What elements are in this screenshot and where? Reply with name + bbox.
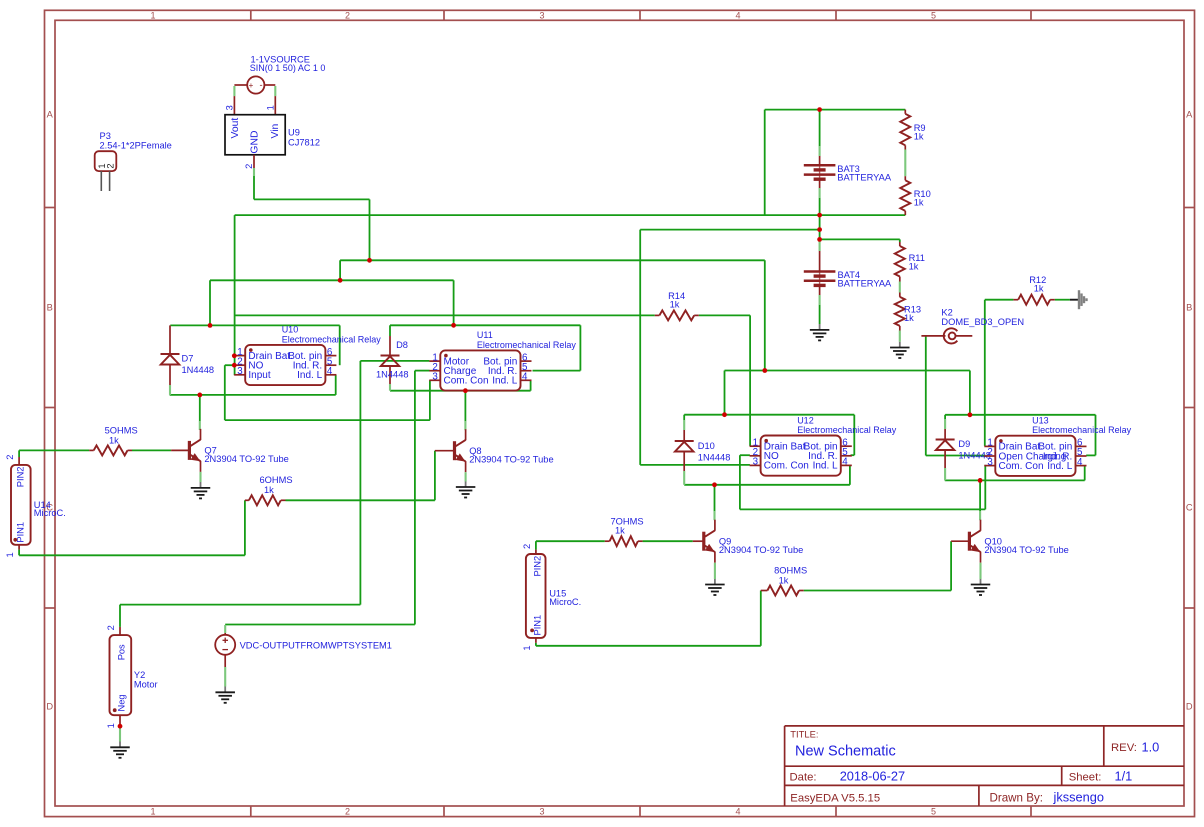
svg-text:3: 3 bbox=[987, 457, 993, 468]
resistor R11 bbox=[899, 239, 901, 242]
svg-text:GND: GND bbox=[249, 131, 260, 154]
transistor Q8 2N3904 bbox=[435, 450, 455, 452]
junction node y280 bbox=[338, 278, 343, 283]
svg-text:1N4448: 1N4448 bbox=[376, 370, 409, 380]
resistor 8OHMS bbox=[761, 590, 768, 592]
svg-text:1k: 1k bbox=[615, 526, 625, 536]
relay U13 Electromechanical Relay bbox=[995, 436, 1075, 476]
svg-text:U12: U12 bbox=[797, 415, 814, 425]
svg-text:4: 4 bbox=[735, 11, 740, 21]
wire VDC riser to U11 pin2 bbox=[415, 370, 430, 372]
svg-text:TITLE:: TITLE: bbox=[790, 729, 818, 740]
svg-text:1k: 1k bbox=[914, 132, 924, 142]
svg-text:D: D bbox=[46, 702, 53, 712]
svg-text:D7: D7 bbox=[182, 354, 194, 364]
junction BAT4 node B bbox=[817, 237, 822, 242]
svg-text:B: B bbox=[47, 303, 53, 313]
svg-text:Electromechanical Relay: Electromechanical Relay bbox=[282, 334, 382, 344]
svg-text:3: 3 bbox=[539, 807, 544, 817]
junction BAT4 node A bbox=[817, 227, 822, 232]
svg-text:2N3904 TO-92 Tube: 2N3904 TO-92 Tube bbox=[469, 455, 553, 465]
junction Q7 collector bbox=[197, 393, 202, 398]
resistor 6OHMS bbox=[245, 499, 249, 501]
ground under BAT4 bbox=[819, 324, 821, 330]
junction Y2 pin1 bbox=[118, 724, 123, 729]
svg-text:1: 1 bbox=[106, 723, 116, 728]
svg-text:4: 4 bbox=[327, 366, 333, 377]
diode D10 1N4448 bbox=[683, 415, 685, 420]
svg-text:K2: K2 bbox=[941, 307, 952, 317]
wire U12 top rail bbox=[684, 414, 854, 416]
wire U12 pin2 to U13 pin3 bbox=[740, 454, 750, 456]
wire 8OHMS to Q10 base bbox=[804, 590, 951, 592]
svg-text:1N4448: 1N4448 bbox=[182, 365, 215, 375]
svg-text:U13: U13 bbox=[1032, 416, 1049, 426]
junction BAT3 minus bbox=[817, 213, 822, 218]
svg-text:B: B bbox=[1186, 303, 1192, 313]
svg-text:Sheet:: Sheet: bbox=[1069, 771, 1102, 783]
relay U12 Electromechanical Relay bbox=[761, 436, 841, 476]
wire U13 top rail bbox=[945, 414, 1095, 416]
ground under Q9 bbox=[714, 563, 716, 579]
resistor R10 bbox=[900, 180, 910, 211]
wire U9 GND to node bbox=[253, 176, 255, 199]
svg-text:4: 4 bbox=[735, 807, 740, 817]
svg-text:1k: 1k bbox=[909, 262, 919, 272]
svg-text:MicroC.: MicroC. bbox=[34, 508, 66, 518]
svg-text:CJ7812: CJ7812 bbox=[288, 138, 320, 148]
wire battery node to R11 bbox=[820, 238, 900, 240]
svg-text:1: 1 bbox=[522, 645, 532, 650]
svg-text:Ind. L: Ind. L bbox=[297, 370, 322, 381]
svg-text:Date:: Date: bbox=[790, 771, 817, 783]
transistor Q10 2N3904 bbox=[951, 540, 969, 542]
svg-text:D9: D9 bbox=[958, 439, 970, 449]
buzzer K2 DOME_BD3_OPEN bbox=[921, 335, 945, 337]
svg-text:5: 5 bbox=[931, 11, 936, 21]
wire U10 pin2 pin3 to U11 pin3 bbox=[225, 364, 234, 366]
svg-text:4: 4 bbox=[522, 372, 528, 383]
junction Q9 collector bbox=[712, 482, 717, 487]
svg-text:Com. Con: Com. Con bbox=[444, 376, 489, 387]
svg-text:2N3904 TO-92 Tube: 2N3904 TO-92 Tube bbox=[984, 545, 1068, 555]
svg-text:Ind. L: Ind. L bbox=[492, 376, 517, 387]
junction U10 rail riser bbox=[208, 323, 213, 328]
regulator U9 CJ7812 bbox=[225, 115, 285, 155]
junction U10 pin1 bbox=[232, 353, 237, 358]
wire battery top rail bbox=[765, 109, 906, 111]
svg-text:D8: D8 bbox=[396, 340, 408, 350]
junction U11 rail riser bbox=[451, 323, 456, 328]
svg-text:2: 2 bbox=[5, 455, 15, 460]
svg-text:1: 1 bbox=[150, 807, 155, 817]
svg-text:D10: D10 bbox=[698, 441, 715, 451]
svg-text:Pos: Pos bbox=[116, 644, 126, 660]
relay U10 Electromechanical Relay bbox=[245, 345, 325, 385]
svg-text:Electromechanical Relay: Electromechanical Relay bbox=[797, 425, 897, 435]
svg-text:2: 2 bbox=[345, 807, 350, 817]
svg-text:Ind. L: Ind. L bbox=[1047, 461, 1072, 472]
svg-text:Drawn By:: Drawn By: bbox=[990, 791, 1043, 804]
ground port right of R12 bbox=[1070, 299, 1079, 301]
svg-text:BATTERYAA: BATTERYAA bbox=[837, 173, 892, 183]
ground under Y2 bbox=[119, 726, 121, 741]
svg-text:BATTERYAA: BATTERYAA bbox=[838, 279, 893, 289]
svg-text:MicroC.: MicroC. bbox=[549, 597, 581, 607]
junction Q8 collector bbox=[463, 388, 468, 393]
diode D8 1N4448 bbox=[389, 336, 391, 356]
wire R12 to U13 pin1 bbox=[984, 300, 986, 446]
ground under Q10 bbox=[979, 563, 981, 579]
wire K2 to U13 pin2 bbox=[925, 336, 927, 456]
diode D9 1N4448 bbox=[944, 415, 946, 419]
svg-text:jkssengo: jkssengo bbox=[1053, 790, 1105, 805]
svg-text:2018-06-27: 2018-06-27 bbox=[840, 769, 905, 784]
source VDC-OUTPUTFROMWPTSYSTEM1 bbox=[215, 635, 235, 655]
voltage source VSOURCE1 bbox=[247, 76, 264, 93]
wire U10 top rail bbox=[170, 324, 339, 326]
wire U12 bottom rail bbox=[684, 484, 850, 486]
svg-text:4: 4 bbox=[1077, 457, 1083, 468]
ground under R13 bbox=[899, 342, 901, 348]
junction mid rail bbox=[762, 368, 767, 373]
svg-text:New Schematic: New Schematic bbox=[795, 744, 896, 760]
wire node row y260 bbox=[340, 259, 765, 261]
wire U15 pin1 to 8OHMS bbox=[535, 643, 537, 646]
resistor R9 bbox=[904, 110, 906, 114]
ground under VDC source bbox=[224, 687, 226, 693]
svg-text:P3: P3 bbox=[100, 131, 111, 141]
connector U14 MicroC bbox=[11, 465, 31, 545]
resistor R12 bbox=[1013, 299, 1018, 301]
svg-text:Com. Con: Com. Con bbox=[764, 461, 809, 472]
svg-text:1: 1 bbox=[265, 105, 275, 110]
svg-text:Neg: Neg bbox=[116, 694, 126, 711]
svg-text:1k: 1k bbox=[904, 313, 914, 323]
svg-text:1k: 1k bbox=[264, 485, 274, 495]
wire U15 pin2 to 7OHMS row bbox=[535, 541, 537, 549]
svg-text:5: 5 bbox=[931, 807, 936, 817]
wire mid rail y370 bbox=[725, 370, 970, 372]
svg-text:Input: Input bbox=[248, 370, 270, 381]
connector P3 bbox=[95, 151, 117, 171]
svg-text:PIN1: PIN1 bbox=[532, 615, 542, 636]
svg-text:+: + bbox=[249, 81, 254, 90]
wire motor to U11 pin1 bbox=[360, 360, 429, 362]
svg-text:PIN2: PIN2 bbox=[532, 556, 542, 577]
svg-text:4: 4 bbox=[842, 457, 848, 468]
diode D7 1N4448 bbox=[169, 325, 171, 354]
svg-text:1k: 1k bbox=[914, 198, 924, 208]
wire Q8 base to 6OHMS bbox=[434, 451, 436, 501]
wire U13 bottom rail bbox=[945, 479, 1085, 481]
svg-text:2: 2 bbox=[244, 164, 254, 169]
svg-text:2: 2 bbox=[345, 11, 350, 21]
wire U12 pin3 to battery node bbox=[640, 464, 750, 466]
resistor R14 bbox=[655, 314, 660, 316]
motor Y2 bbox=[110, 635, 132, 715]
svg-text:3: 3 bbox=[224, 105, 234, 110]
svg-text:5OHMS: 5OHMS bbox=[105, 426, 138, 436]
svg-text:2N3904 TO-92 Tube: 2N3904 TO-92 Tube bbox=[719, 545, 803, 555]
junction Q10 collector bbox=[978, 478, 983, 483]
svg-text:U9: U9 bbox=[288, 127, 300, 137]
junction U13 rail bbox=[968, 412, 973, 417]
ground under Q8 bbox=[465, 472, 467, 481]
wire U14 pin2 to 5OHMS row bbox=[18, 450, 20, 457]
svg-text:2: 2 bbox=[106, 625, 116, 630]
ground under Q7 bbox=[199, 472, 201, 482]
svg-text:Electromechanical Relay: Electromechanical Relay bbox=[1032, 425, 1132, 435]
svg-text:1k: 1k bbox=[779, 576, 789, 586]
svg-text:REV:: REV: bbox=[1111, 742, 1137, 754]
svg-text:A: A bbox=[1186, 110, 1193, 120]
svg-text:VDC-OUTPUTFROMWPTSYSTEM1: VDC-OUTPUTFROMWPTSYSTEM1 bbox=[240, 640, 392, 650]
svg-text:2: 2 bbox=[522, 544, 532, 549]
relay U11 Electromechanical Relay bbox=[440, 350, 520, 390]
battery BAT3 bbox=[819, 110, 821, 146]
battery BAT4 bbox=[819, 215, 821, 241]
svg-text:2.54-1*2PFemale: 2.54-1*2PFemale bbox=[100, 141, 172, 151]
svg-text:8OHMS: 8OHMS bbox=[774, 566, 807, 576]
resistor 7OHMS bbox=[605, 540, 610, 542]
svg-text:PIN2: PIN2 bbox=[16, 467, 26, 488]
svg-text:1k: 1k bbox=[109, 435, 119, 445]
svg-text:SIN(0 1 50) AC 1 0: SIN(0 1 50) AC 1 0 bbox=[250, 63, 326, 73]
junction BAT3 plus bbox=[817, 107, 822, 112]
junction U12 rail bbox=[722, 412, 727, 417]
svg-text:1: 1 bbox=[150, 11, 155, 21]
svg-text:6OHMS: 6OHMS bbox=[260, 475, 293, 485]
wire U11 top rail bbox=[389, 325, 391, 336]
transistor Q7 2N3904 bbox=[171, 449, 189, 451]
svg-text:C: C bbox=[1186, 503, 1193, 513]
svg-text:1/1: 1/1 bbox=[1115, 769, 1133, 784]
junction U9-GND net bbox=[367, 258, 372, 263]
wire 6OHMS to U14 pin1 bbox=[19, 554, 245, 556]
svg-text:1.0: 1.0 bbox=[1142, 739, 1160, 754]
svg-text:Vout: Vout bbox=[230, 118, 241, 139]
svg-text:1k: 1k bbox=[1034, 284, 1044, 294]
svg-text:3: 3 bbox=[539, 11, 544, 21]
svg-text:3: 3 bbox=[237, 366, 243, 377]
wire U11 bottom rail bbox=[390, 390, 531, 392]
svg-text:1k: 1k bbox=[670, 300, 680, 310]
wire battery bottom rail y215 bbox=[235, 214, 906, 216]
svg-text:3: 3 bbox=[753, 457, 759, 468]
svg-text:Motor: Motor bbox=[134, 679, 158, 689]
svg-text:3: 3 bbox=[432, 372, 438, 383]
svg-text:Com. Con: Com. Con bbox=[999, 461, 1044, 472]
svg-text:U10: U10 bbox=[282, 325, 299, 335]
svg-text:DOME_BD3_OPEN: DOME_BD3_OPEN bbox=[941, 317, 1024, 327]
resistor R13 bbox=[895, 297, 905, 326]
title block bbox=[785, 725, 1184, 727]
svg-text:Vin: Vin bbox=[270, 123, 281, 138]
svg-text:A: A bbox=[47, 110, 54, 120]
resistor 5OHMS bbox=[88, 449, 90, 451]
svg-text:Ind. L: Ind. L bbox=[813, 461, 838, 472]
wire R14 row y315 bbox=[235, 314, 655, 316]
svg-text:2N3904 TO-92 Tube: 2N3904 TO-92 Tube bbox=[204, 454, 288, 464]
svg-text:1: 1 bbox=[5, 552, 15, 557]
svg-text:EasyEDA V5.5.15: EasyEDA V5.5.15 bbox=[790, 793, 880, 805]
svg-text:-: - bbox=[259, 80, 262, 90]
svg-text:U11: U11 bbox=[477, 330, 493, 340]
wire U10 bottom rail bbox=[170, 394, 336, 396]
transistor Q9 2N3904 bbox=[693, 540, 704, 542]
svg-text:Electromechanical Relay: Electromechanical Relay bbox=[477, 340, 577, 350]
svg-text:D: D bbox=[1186, 702, 1193, 712]
connector U15 MicroC bbox=[526, 554, 546, 638]
svg-text:1N4448: 1N4448 bbox=[698, 453, 731, 463]
junction U10 pin2 bbox=[232, 363, 237, 368]
wire node row y280 bbox=[210, 279, 454, 281]
svg-text:2: 2 bbox=[105, 163, 115, 168]
